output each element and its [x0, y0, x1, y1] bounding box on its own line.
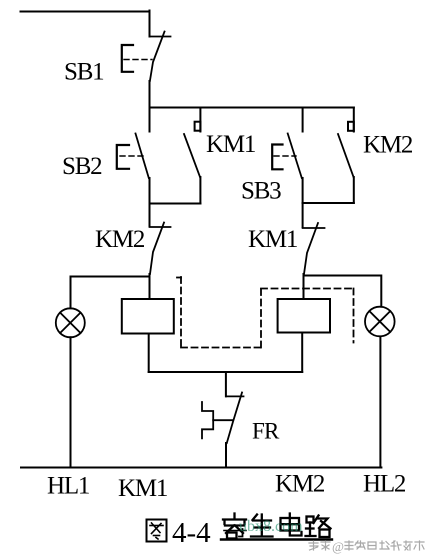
wire: bus to FR [225, 372, 227, 396]
dashed parasitic-path box [177, 277, 354, 348]
caption underline [221, 538, 332, 540]
watermark gray 头条@电气自动化技术 (approximated strokes) [309, 539, 424, 554]
svg-text:KM2: KM2 [363, 132, 413, 159]
wire: lamp HL2 to bottom bus [379, 337, 381, 468]
wire: coil junction bus [149, 371, 303, 373]
contact KM2 interlock (NC) [150, 223, 171, 275]
contact KM1 interlock (NC) [303, 223, 325, 274]
lamp HL1 [56, 308, 85, 337]
svg-text:KM1: KM1 [206, 131, 255, 158]
contact KM2 auxiliary (NO) [338, 108, 354, 204]
电 [289, 514, 291, 532]
svg-text:KM2: KM2 [95, 226, 145, 253]
wire: KM1 NC to coil KM2 [303, 274, 305, 299]
svg-text:ubx8.com: ubx8.com [239, 518, 303, 535]
svg-text:HL1: HL1 [47, 473, 89, 500]
wire: top supply line L1 [21, 11, 150, 13]
wire: lamp HL1 to bottom bus [70, 337, 72, 467]
caption figure number 图4-4 [147, 520, 167, 542]
wire: coil KM2 to junction bus [301, 333, 303, 373]
svg-text:SB2: SB2 [62, 153, 102, 180]
pushbutton SB2 (NO) [117, 108, 150, 204]
svg-text:SB3: SB3 [241, 178, 281, 205]
wire: FR to bottom bus [225, 443, 227, 468]
coil KM1 [122, 299, 174, 334]
svg-text:KM1: KM1 [248, 226, 297, 253]
生 [253, 515, 258, 521]
thermal relay FR (NC contact with heater) [202, 393, 244, 444]
caption title 寄生电路 (drawn strokes) [223, 514, 331, 539]
svg-text:FR: FR [252, 419, 280, 444]
wire: SB1 to bus node A [149, 81, 151, 108]
svg-text:@: @ [332, 539, 344, 554]
wire: horizontal bus below SB1 [150, 107, 354, 109]
wire: left branch down [149, 204, 151, 227]
svg-text:KM1: KM1 [118, 475, 167, 502]
wire: KM2 NC to coil KM1 [149, 274, 151, 299]
pushbutton SB3 (NO) [272, 108, 302, 204]
contact KM1 auxiliary (NO) [184, 108, 200, 204]
svg-text:KM2: KM2 [275, 471, 325, 498]
coil KM2 [278, 299, 330, 333]
wire: branch to lamp HL2 [304, 276, 382, 307]
svg-text:HL2: HL2 [363, 471, 406, 498]
wire: bottom supply line L2 [21, 467, 381, 469]
wire: coil KM1 to junction bus [148, 334, 150, 373]
wire: SB1 top lead [149, 11, 151, 37]
wire: SB2/KM1 bottom join [150, 203, 201, 205]
wire: SB3/KM2 bottom join [303, 202, 354, 204]
wire: branch to lamp HL1 [71, 277, 150, 309]
路 [307, 517, 314, 523]
pushbutton SB1 (NC) [122, 32, 171, 82]
lamp HL2 [365, 307, 395, 337]
wire: right branch down [302, 203, 304, 227]
svg-text:SB1: SB1 [64, 59, 103, 86]
svg-text:4-4: 4-4 [172, 517, 211, 549]
